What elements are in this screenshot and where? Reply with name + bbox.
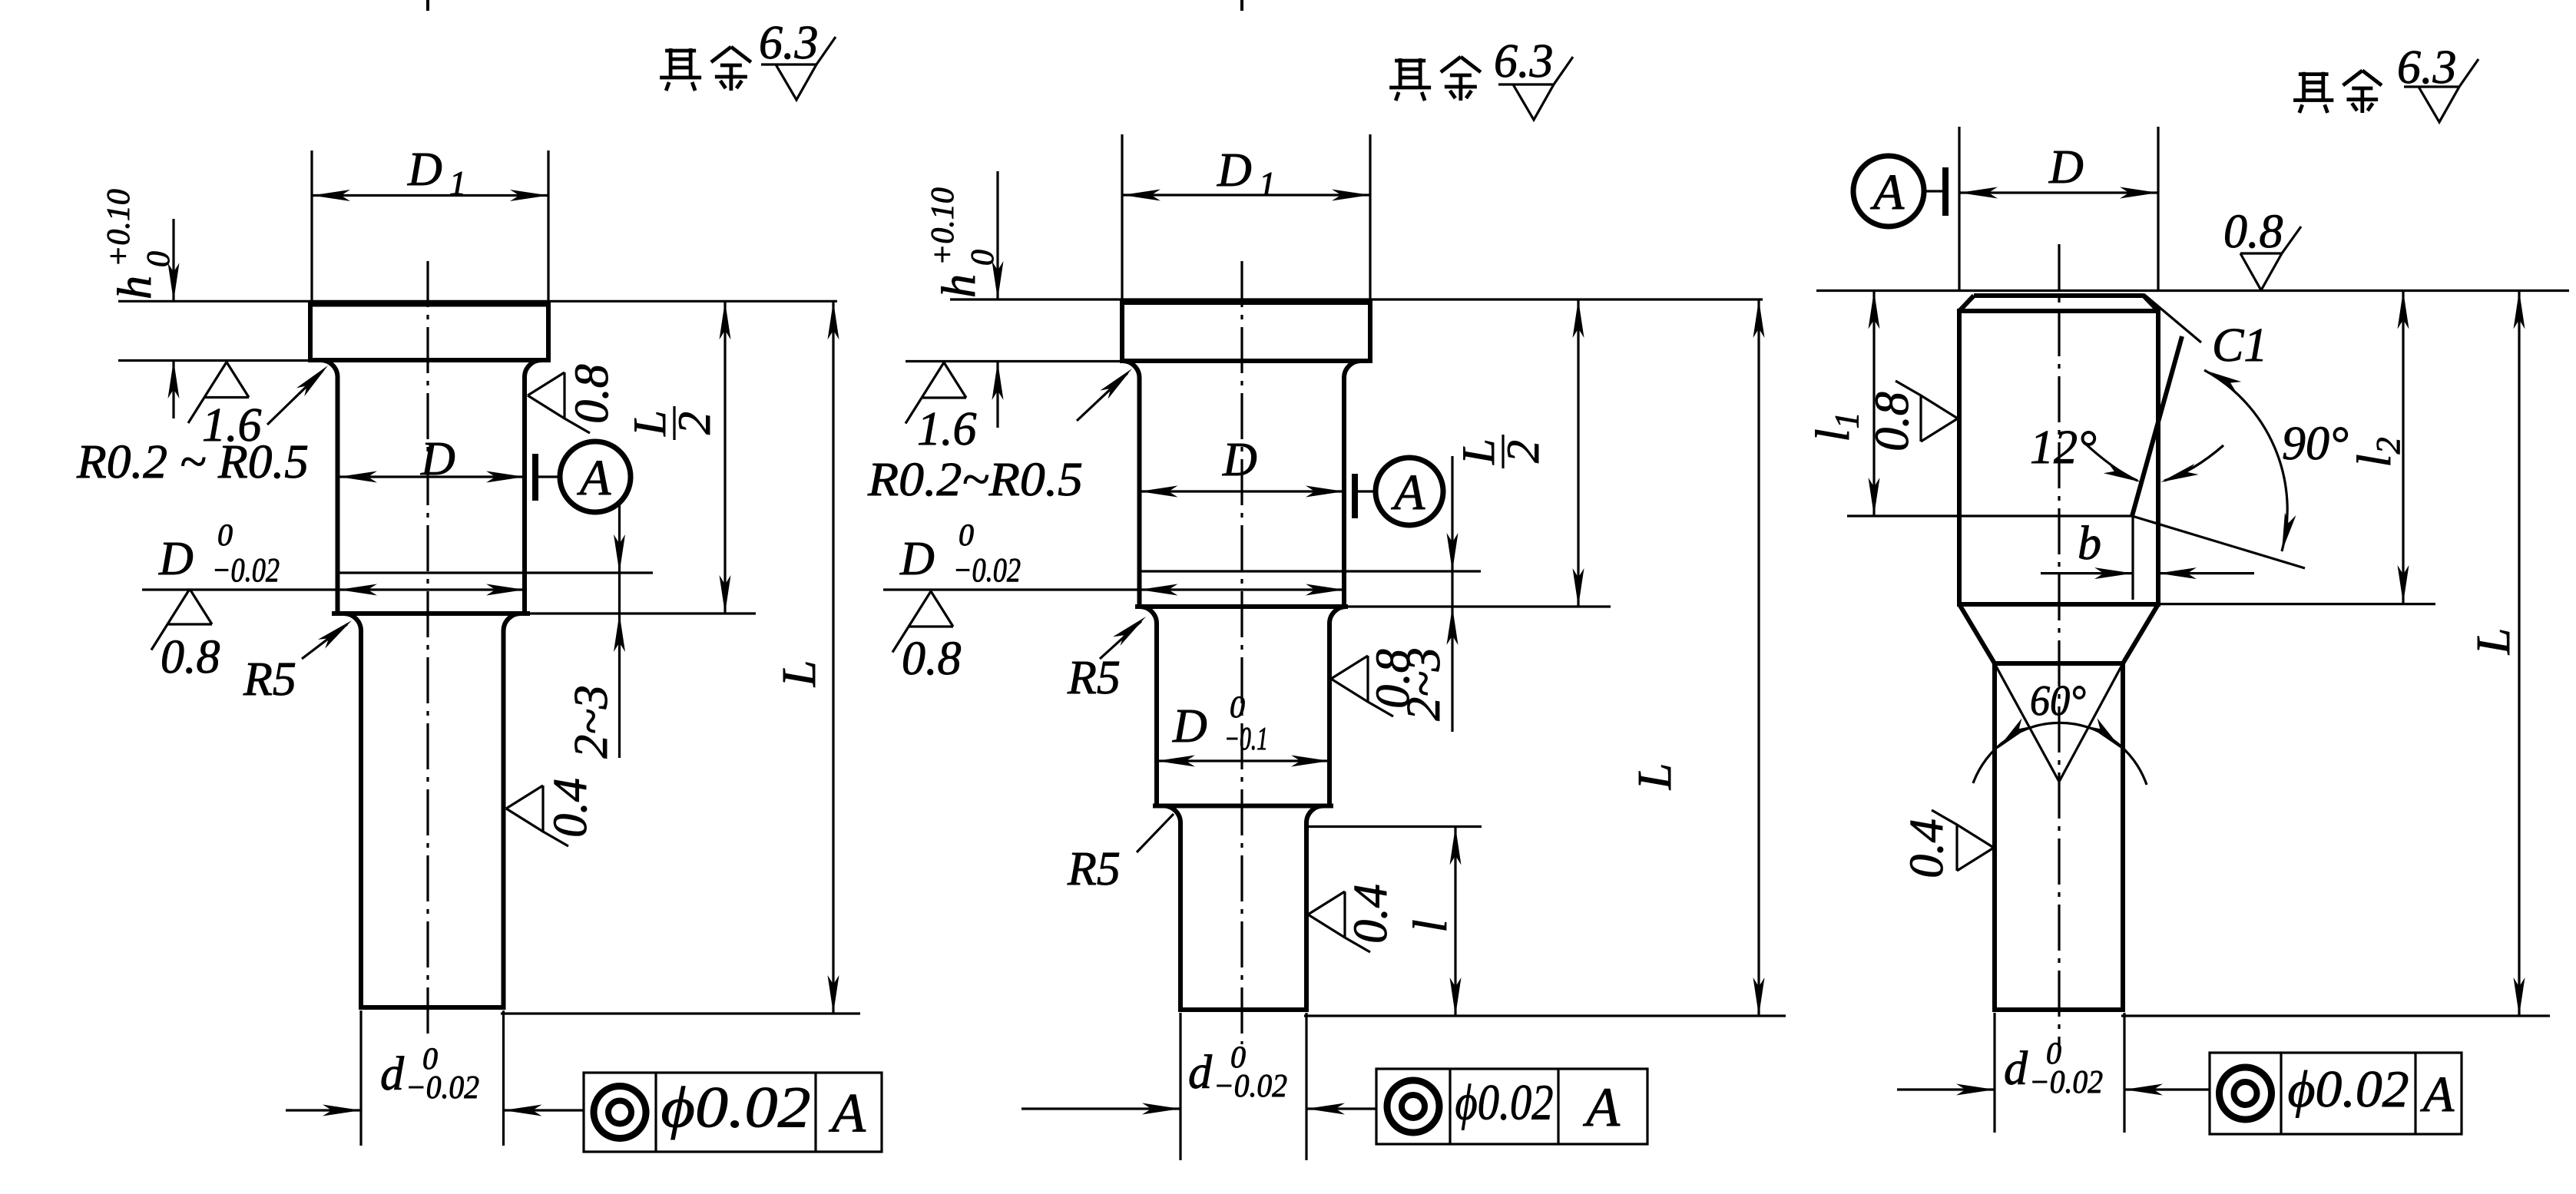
svg-text:D: D — [2048, 141, 2084, 193]
svg-text:L: L — [1453, 438, 1504, 465]
svg-text:−0.02: −0.02 — [406, 1070, 479, 1106]
svg-text:1: 1 — [1259, 165, 1276, 203]
svg-text:D: D — [1217, 144, 1252, 197]
svg-text:0.4: 0.4 — [1345, 884, 1397, 944]
svg-text:0.8: 0.8 — [161, 631, 220, 683]
svg-text:12°: 12° — [2030, 422, 2097, 474]
svg-text:2: 2 — [669, 412, 720, 435]
svg-text:0: 0 — [965, 250, 1001, 266]
svg-text:ϕ0.02: ϕ0.02 — [2288, 1060, 2409, 1118]
svg-text:C1: C1 — [2212, 319, 2267, 372]
svg-text:ϕ0.02: ϕ0.02 — [1455, 1075, 1554, 1131]
svg-text:6.3: 6.3 — [1494, 35, 1554, 88]
svg-text:2~3: 2~3 — [1398, 647, 1450, 721]
svg-text:L: L — [773, 660, 826, 687]
svg-text:0.8: 0.8 — [902, 633, 962, 685]
svg-text:R5: R5 — [243, 653, 296, 706]
svg-text:R0.2~R0.5: R0.2~R0.5 — [867, 454, 1083, 506]
svg-text:0.4: 0.4 — [1901, 819, 1953, 878]
svg-text:A: A — [829, 1083, 866, 1144]
svg-text:D: D — [899, 533, 935, 585]
svg-text:2: 2 — [1498, 440, 1548, 463]
svg-text:D: D — [1222, 434, 1257, 486]
svg-text:D: D — [407, 144, 442, 196]
svg-text:R5: R5 — [1067, 652, 1121, 704]
svg-text:R5: R5 — [1067, 843, 1121, 895]
svg-text:d: d — [380, 1048, 405, 1100]
svg-text:D: D — [1172, 700, 1207, 752]
svg-text:0.8: 0.8 — [2223, 206, 2283, 258]
svg-text:−0.02: −0.02 — [212, 551, 280, 589]
svg-text:A: A — [2420, 1067, 2455, 1123]
svg-text:−0.02: −0.02 — [1214, 1069, 1287, 1104]
svg-text:+0.10: +0.10 — [101, 189, 137, 267]
svg-text:0: 0 — [141, 251, 177, 267]
svg-text:b: b — [2078, 518, 2101, 570]
svg-text:−0.02: −0.02 — [2029, 1065, 2103, 1100]
svg-text:h: h — [109, 276, 161, 299]
svg-text:−0.1: −0.1 — [1224, 722, 1268, 757]
svg-text:l: l — [1405, 919, 1457, 932]
svg-text:1.6: 1.6 — [917, 403, 977, 455]
svg-text:0.8: 0.8 — [1866, 392, 1919, 451]
svg-text:A: A — [1391, 465, 1425, 521]
svg-text:A: A — [1583, 1077, 1621, 1138]
svg-text:l2: l2 — [2349, 437, 2407, 467]
svg-text:L: L — [1629, 763, 1681, 790]
svg-text:D: D — [420, 433, 455, 485]
svg-text:L: L — [624, 410, 675, 436]
svg-text:−0.02: −0.02 — [953, 551, 1021, 589]
svg-text:A: A — [1870, 164, 1905, 220]
svg-text:A: A — [577, 450, 611, 506]
svg-text:6.3: 6.3 — [759, 17, 819, 69]
svg-text:ϕ0.02: ϕ0.02 — [661, 1076, 811, 1140]
svg-text:L: L — [2468, 628, 2520, 655]
svg-text:2~3: 2~3 — [565, 685, 618, 759]
svg-text:d: d — [1188, 1047, 1213, 1099]
svg-text:R0.2 ~ R0.5: R0.2 ~ R0.5 — [76, 436, 309, 488]
svg-text:0.8: 0.8 — [566, 364, 618, 424]
svg-text:1: 1 — [449, 164, 466, 202]
svg-text:+0.10: +0.10 — [925, 187, 961, 266]
svg-text:0: 0 — [1230, 690, 1245, 724]
svg-text:0: 0 — [217, 518, 233, 552]
svg-text:0: 0 — [959, 518, 974, 552]
svg-text:h: h — [933, 274, 985, 298]
svg-text:0.4: 0.4 — [545, 778, 597, 838]
svg-text:90°: 90° — [2282, 418, 2349, 470]
svg-text:D: D — [158, 533, 194, 585]
svg-text:60°: 60° — [2030, 677, 2086, 725]
svg-text:d: d — [2004, 1043, 2028, 1095]
svg-text:l1: l1 — [1807, 412, 1866, 442]
